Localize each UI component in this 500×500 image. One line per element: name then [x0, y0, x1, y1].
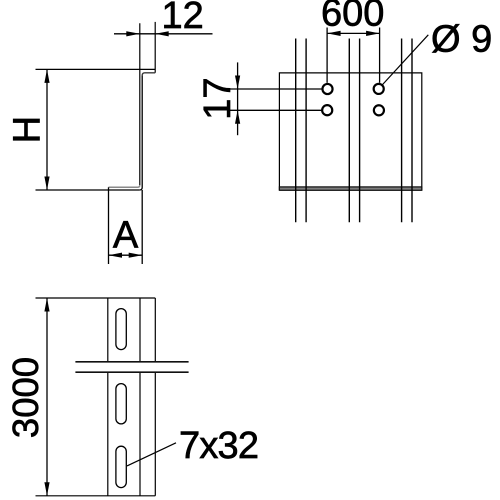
label diameter 9	[431, 19, 492, 61]
dimension 12 line with outside arrows	[114, 31, 213, 36]
wire: A-dim right extension line	[141, 190, 143, 264]
svg-text:H: H	[7, 116, 49, 143]
label 600	[321, 0, 384, 35]
svg-text:7x32: 7x32	[179, 425, 258, 467]
mesh rail 1 (left, two wires)	[296, 39, 306, 223]
leader line for hole diameter	[383, 35, 429, 85]
mesh rail 3 (right, two wires)	[402, 39, 412, 223]
dimension 3000 line with arrows	[44, 298, 49, 496]
leader line lower hole (17 dim)	[227, 109, 321, 111]
mesh rail 2 (middle, two wires)	[349, 39, 359, 223]
foot band at bottom of plate	[279, 187, 421, 190]
strip top edge + 3000 top extension line	[36, 297, 156, 299]
rung lower line	[75, 371, 188, 373]
wire: lip end cap + 12-dim right extension line	[154, 22, 156, 73]
hole bottom-right	[374, 105, 384, 115]
wire: lip inner (bottom) surface with bend radius	[142, 73, 155, 76]
hole top-right	[374, 84, 384, 94]
svg-text:17: 17	[197, 77, 239, 119]
strip right edge (interrupted by rung)	[154, 298, 156, 496]
label A	[113, 214, 139, 256]
label 12	[162, 0, 204, 37]
label H	[7, 116, 49, 143]
dimension 600 line with arrows	[327, 31, 380, 36]
slot 3	[116, 446, 126, 487]
dimension 600 extension lines	[327, 28, 380, 83]
slot 1	[116, 309, 126, 350]
leader line upper hole (17 dim)	[227, 88, 321, 90]
rung upper line	[75, 361, 188, 363]
wire: foot left end cap + A-dim left extension line	[108, 187, 110, 264]
label 17	[197, 77, 239, 119]
wire: foot bottom surface + H bottom extension line	[36, 189, 140, 191]
svg-text:600: 600	[321, 0, 384, 35]
strip left edge (interrupted by rung)	[107, 298, 109, 496]
strip fold line (interrupted by rung)	[139, 298, 141, 496]
separation wall plate	[279, 73, 421, 190]
dimension 17 line with outside arrows	[235, 62, 240, 135]
wire: foot top surface (inner, gray) with bend radius	[109, 185, 140, 187]
strip bottom edge + 3000 bottom extension line	[36, 495, 156, 497]
label 7x32	[179, 425, 258, 467]
svg-text:12: 12	[162, 0, 204, 37]
slot 2	[116, 384, 126, 424]
wire: top lip outer surface + H top extension line	[36, 68, 156, 70]
dimension H line with arrows	[44, 69, 49, 190]
wire: web left edge + 12-dim left extension line	[139, 23, 141, 185]
svg-text:3000: 3000	[5, 357, 46, 438]
hole top-left	[322, 84, 332, 94]
hole bottom-left	[322, 105, 332, 115]
svg-text:Ø 9: Ø 9	[431, 19, 492, 61]
dimension A line with arrows	[109, 253, 143, 258]
wire: web right edge down to outer corner of foot	[140, 75, 143, 190]
leader line for slot size	[127, 443, 176, 466]
label 3000	[5, 357, 46, 438]
svg-text:A: A	[113, 214, 139, 256]
